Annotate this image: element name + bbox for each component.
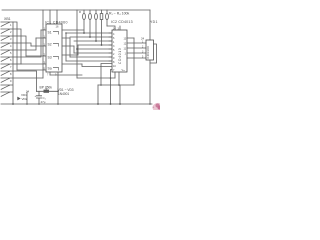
IC2 box CD4013: [112, 30, 127, 72]
switch contact 8: [1, 71, 14, 76]
switch contact 9: [1, 78, 14, 83]
left mesh row6 riser x41: [13, 30, 41, 57]
IC2 bottom pin wire x115: [114, 72, 116, 78]
switch contact 10: [1, 85, 14, 90]
left mesh row7: [13, 63, 21, 65]
switch contact tip dots: [8, 22, 9, 93]
IC1 bottom pin x58 to rail: [57, 72, 59, 104]
wire riser above IC1 right: [56, 10, 58, 24]
wire x120 to bottom rail: [119, 85, 121, 104]
svg-text:XB1: XB1: [4, 17, 11, 21]
left mesh row9 to x43: [13, 77, 43, 79]
music IC box YD: [146, 40, 154, 60]
svg-text:R: R: [79, 10, 81, 14]
diode VD2: [17, 97, 27, 101]
switch contact 7: [1, 64, 14, 69]
svg-text:Vₓₓ: Vₓₓ: [122, 69, 125, 72]
mesh wire y49 to IC2: [77, 48, 112, 50]
switch position numbers: [10, 23, 12, 83]
wire through BP: [37, 90, 59, 92]
wire top supply rail: [2, 9, 150, 11]
resistor R2: [89, 10, 91, 13]
mesh wire y53 to IC2: [74, 52, 112, 54]
svg-text:IC2 CD4013: IC2 CD4013: [111, 20, 133, 24]
wire riser x77 rail to y78: [76, 10, 78, 78]
mesh wire y33 to IC2: [66, 32, 112, 34]
mesh riser x66: [65, 33, 67, 61]
mesh wire y41 to IC2: [74, 40, 112, 42]
wire diode branch: [26, 92, 28, 105]
switch contact 2: [1, 29, 14, 34]
IC2 top pins: [107, 26, 120, 30]
IC2 left pin stubs: [109, 33, 112, 61]
wire x134 down right of IC2: [133, 38, 135, 85]
svg-text:47µ: 47µ: [41, 100, 46, 104]
mesh wire y45 to IC2: [78, 44, 112, 46]
YD pin digits: [142, 42, 144, 59]
wire music IC bottom to rail: [149, 60, 151, 104]
music IC right stub loop: [150, 44, 157, 63]
wire IC2 pin y63.5 left: [101, 64, 112, 86]
wire x82 elbow to IC2 pin y66.5: [82, 64, 112, 67]
svg-text:S1: S1: [48, 31, 52, 35]
wire x43 riser down: [42, 24, 44, 78]
switch contact 11: [1, 92, 14, 97]
IC1 internal stage S1: [48, 31, 59, 35]
mesh riser x70: [69, 38, 71, 57]
resistor R1: [83, 10, 85, 13]
switch contact 3: [1, 36, 14, 41]
mesh wire y57 to IC2: [70, 56, 112, 58]
left mesh row8 down to BP: [13, 71, 37, 91]
IC1 internal stage S4: [48, 67, 59, 71]
svg-text:CD4013: CD4013: [118, 48, 122, 65]
svg-text:S2: S2: [48, 43, 52, 47]
left mesh row5 riser x36: [13, 38, 36, 50]
wire riser above IC1 left: [42, 10, 44, 24]
resistor R4: [101, 10, 103, 13]
junction dots mesh: [83, 32, 85, 34]
left mesh row2 riser x21: [13, 29, 21, 64]
junction dots bottom rail: [97, 103, 99, 105]
svg-text:S3: S3: [48, 56, 52, 60]
IC2 bottom pin wire x119: [118, 72, 120, 85]
IC2 right pin stubs: [127, 38, 146, 58]
wire y75 below IC1: [50, 74, 82, 76]
mesh wire y37 to IC2: [70, 36, 112, 38]
wire x110 pin y69.5 to rail: [111, 70, 113, 105]
resistor R3: [95, 10, 97, 13]
junction dot BP wire: [57, 91, 59, 93]
svg-text:24: 24: [141, 37, 145, 41]
wire x98 to bottom rail: [97, 85, 99, 104]
resistor R5 column: [106, 10, 108, 13]
capacitor C1: [35, 91, 46, 104]
IC1 internal stage S3: [48, 56, 59, 60]
IC1 pin numbers: [44, 24, 59, 70]
svg-text:Sa: Sa: [48, 67, 52, 71]
diode VD1: [21, 93, 27, 97]
bottom rail: [1, 103, 152, 105]
wire y85 bottom mesh: [98, 84, 134, 86]
IC1 right pin stubs: [62, 30, 84, 64]
switch contact 5: [1, 50, 14, 55]
IC1 internal stage S2: [48, 43, 59, 47]
svg-text:YD1: YD1: [150, 20, 158, 24]
wire y78 long run: [77, 77, 115, 79]
mesh riser x78: [77, 45, 79, 55]
IC1 bottom pin x50: [49, 72, 51, 75]
wire riser above IC1 mid: [49, 10, 51, 24]
switch contact 4: [1, 43, 14, 48]
IC2 pin number column: [113, 28, 127, 72]
switch contact 6: [1, 57, 14, 62]
left mesh row4 riser x31: [13, 43, 31, 46]
watermark blob: [153, 103, 164, 112]
switch contact 1: [1, 22, 14, 27]
potentiometer BP body: [44, 90, 50, 93]
svg-text:1N4001: 1N4001: [58, 92, 69, 96]
IC1 left pin stubs: [17, 30, 46, 70]
left mesh row1 riser x17: [13, 22, 17, 70]
mesh wire y61 to IC2: [66, 60, 112, 62]
mesh riser x74: [73, 46, 75, 53]
left mesh row3 riser x26: [13, 36, 26, 56]
left bus x13: [12, 22, 14, 104]
IC1 box CD4060: [46, 24, 62, 72]
wire right drop from rail to YD column: [149, 10, 151, 40]
svg-text:KD9300: KD9300: [146, 46, 150, 59]
svg-text:R₁ ~ R₄ 100k: R₁ ~ R₄ 100k: [109, 12, 129, 16]
